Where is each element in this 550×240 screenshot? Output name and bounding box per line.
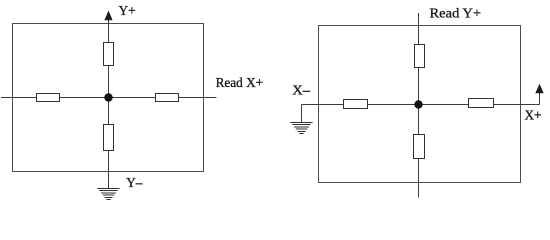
arrow Y+ bbox=[104, 11, 112, 21]
resistor (bottom) bbox=[414, 135, 425, 159]
wire: stub down to ground bbox=[301, 105, 303, 123]
wire: horizontal X line bbox=[302, 104, 540, 106]
resistor (right) bbox=[156, 94, 179, 102]
panel outline (right) bbox=[319, 26, 521, 183]
resistor (left) bbox=[344, 100, 368, 109]
wire: vertical Y line bbox=[418, 13, 420, 198]
svg-text:X+: X+ bbox=[525, 109, 542, 124]
resistor (right) bbox=[469, 99, 494, 108]
resistor (left) bbox=[37, 94, 60, 102]
svg-text:Read Y+: Read Y+ bbox=[430, 7, 482, 22]
ground Y- bbox=[97, 189, 119, 200]
svg-text:Read X+: Read X+ bbox=[216, 76, 264, 91]
ground X- bbox=[290, 123, 312, 134]
resistor (top) bbox=[104, 43, 114, 66]
arrow X+ bbox=[535, 84, 543, 93]
node: center junction (left) bbox=[104, 93, 112, 101]
wire: riser to X+ arrow bbox=[539, 93, 541, 105]
left circuit: touch screen panel, Read X+ configuration bbox=[1, 11, 217, 200]
resistor (top) bbox=[415, 45, 425, 68]
wire: vertical Y line bbox=[108, 19, 110, 189]
svg-text:Y–: Y– bbox=[126, 176, 143, 191]
svg-text:X–: X– bbox=[292, 83, 311, 98]
wire: horizontal X line bbox=[1, 97, 217, 99]
panel outline (left) bbox=[13, 24, 204, 172]
resistor (bottom) bbox=[104, 125, 114, 151]
node: center junction (right) bbox=[414, 100, 422, 108]
svg-text:Y+: Y+ bbox=[119, 4, 136, 19]
right circuit: touch screen panel, Read Y+ configuration bbox=[290, 13, 543, 198]
